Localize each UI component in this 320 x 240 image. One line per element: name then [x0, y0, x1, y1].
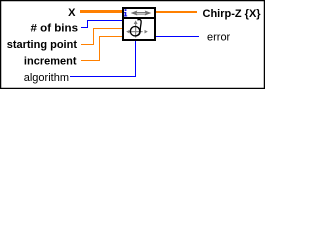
svg-text:starting point: starting point — [7, 39, 78, 51]
svg-text:# of bins: # of bins — [31, 23, 79, 35]
svg-text:X: X — [68, 7, 76, 19]
svg-text:increment: increment — [24, 56, 77, 68]
svg-text:error: error — [207, 32, 231, 44]
svg-text:Chirp-Z {X}: Chirp-Z {X} — [203, 8, 262, 20]
svg-text:algorithm: algorithm — [24, 72, 69, 84]
